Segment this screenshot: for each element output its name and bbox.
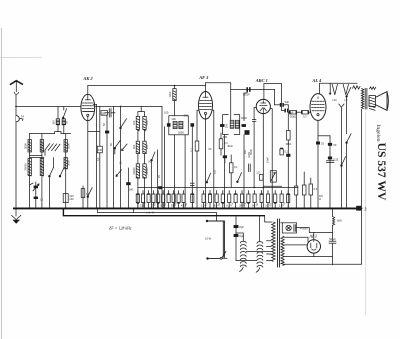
wire osc right column [144, 129, 146, 141]
resistor Ra6 [160, 194, 164, 208]
svg-text:3000: 3000 [66, 160, 70, 166]
capacitor C17 blob [328, 143, 337, 147]
AL4 cathode network bracket [318, 135, 330, 137]
IF1 coil left [173, 121, 177, 128]
transformer secondary winding 2 [281, 259, 284, 266]
resistor Rb6 [234, 193, 237, 202]
svg-text:0,25: 0,25 [333, 157, 339, 161]
wire AF3 left lead [197, 110, 199, 141]
capacitor C7 blob [167, 123, 171, 127]
wire x346.5 down [346, 96, 348, 133]
transformer primary winding [272, 222, 276, 262]
speaker output transformer winding [361, 88, 363, 108]
wire AF3 anode rail [206, 83, 231, 121]
resistor Rc1 [295, 112, 298, 208]
trimmer capacitor C1 [33, 182, 39, 192]
wire x120.5 full [120, 106, 122, 208]
svg-text:3600: 3600 [24, 143, 28, 149]
tube AF3 top stem [203, 83, 208, 98]
label 100 100 [132, 120, 149, 125]
oscillator coil pair Lb middle [136, 141, 146, 153]
wire x99.5 lower [99, 153, 101, 209]
resistor Ra5 [157, 194, 160, 204]
plug V1 L10 [332, 84, 337, 94]
resistor Rb5 [226, 194, 230, 208]
wire x332 mid [332, 225, 334, 241]
tube AK2 cathode [87, 114, 89, 121]
wire cap link [236, 233, 243, 241]
wire osc left column 2 [137, 154, 139, 164]
tube AL4 grids [312, 101, 325, 111]
speaker transformer core [365, 88, 367, 109]
wire winding bottom stub [283, 263, 284, 266]
wire x157.5 [157, 150, 159, 208]
svg-text:+4V: +4V [364, 207, 368, 212]
wire x185.1 drop [184, 135, 186, 209]
band switch S1 [63, 109, 67, 119]
svg-text:0,1: 0,1 [234, 165, 238, 169]
svg-text:15: 15 [40, 198, 43, 202]
trimmer arrow T3 [116, 170, 121, 177]
svg-text:0,1: 0,1 [190, 148, 194, 152]
pickup jack TA [16, 114, 24, 121]
capacitor C21 50uF [329, 241, 336, 264]
wire AZ1 top [313, 233, 315, 240]
svg-text:50: 50 [333, 143, 336, 147]
wire AL4 bottom stem [317, 120, 319, 208]
wire osc right column 2 [144, 154, 146, 164]
tube AK2 envelope [81, 94, 95, 120]
wire IF2 bottom drop [224, 134, 226, 208]
capacitor C18 blob [326, 157, 338, 163]
resistor Rb11 [265, 194, 269, 208]
svg-text:100: 100 [145, 120, 149, 125]
resistor Rb10 [260, 193, 263, 202]
wire transformer top drop [265, 216, 272, 222]
IF2 coil left [230, 120, 234, 128]
svg-text:30000: 30000 [24, 163, 28, 171]
svg-text:ZF = 128 kHz: ZF = 128 kHz [109, 225, 132, 230]
page divider line [365, 112, 367, 315]
switch S11 [87, 188, 92, 198]
wire AK2 bottom stem [87, 121, 89, 209]
resistor R7 on x288 [287, 130, 291, 208]
wire AL4 anode rail [320, 83, 358, 94]
svg-text:10nF: 10nF [266, 157, 270, 163]
resistor R11 [280, 148, 288, 155]
tube AZ1 internals [311, 240, 317, 250]
wire filter left vertical [29, 134, 31, 209]
switch S3 [59, 168, 64, 177]
resistor R3 box [101, 111, 107, 116]
capacitor C11b blob [245, 130, 250, 135]
node rail-coil junction [174, 85, 176, 87]
svg-text:5µF: 5µF [285, 100, 290, 104]
capacitor C5 blob [126, 168, 133, 208]
switch S8 [346, 134, 351, 209]
label 300 200 [132, 144, 149, 149]
power box bottom [284, 208, 362, 264]
svg-text:30nF: 30nF [227, 144, 233, 148]
coil L4 5000 [64, 140, 67, 152]
switch S2 [49, 168, 54, 209]
wire AZ1 bottom loop [314, 253, 333, 257]
wire y89.5 avc [231, 89, 275, 91]
switch S12 [206, 173, 211, 183]
resistor R14 [81, 189, 90, 198]
capacitor C13 5uF [275, 100, 290, 107]
svg-text:15 W: 15 W [205, 237, 212, 241]
wire filter box top rail [30, 132, 71, 134]
transformer secondary winding 1 [281, 236, 284, 259]
capacitor C22 bars [248, 164, 250, 172]
wire selector link y260.5 [236, 260, 257, 262]
resistor Ra9 [177, 194, 180, 204]
svg-text:TA: TA [21, 114, 24, 118]
plug Y [339, 104, 344, 111]
svg-text:1nF: 1nF [243, 149, 247, 154]
transformer core [278, 219, 280, 268]
detector resistor R8 [219, 133, 228, 155]
svg-text:100: 100 [171, 117, 176, 121]
wire coil tops y157.6 [30, 158, 68, 168]
speaker voice coil [369, 96, 375, 111]
resistor R1 box 100/140 [63, 194, 74, 203]
svg-text:50: 50 [109, 143, 113, 146]
selector bottom hooks [240, 267, 260, 272]
tube AK2 top cap [85, 86, 90, 100]
svg-text:0,3: 0,3 [303, 115, 307, 119]
svg-text:L10: L10 [332, 98, 337, 102]
svg-text:20000: 20000 [132, 167, 136, 175]
potentiometer P1 [270, 171, 276, 182]
coil L5 30000 [28, 158, 31, 176]
wire mid horizontal [30, 154, 42, 156]
svg-text:35: 35 [64, 121, 68, 124]
node avc1 [253, 187, 255, 189]
svg-text:100: 100 [52, 120, 56, 125]
svg-text:AF 3: AF 3 [198, 75, 209, 80]
resistor Rb12 [274, 194, 277, 204]
mains plug bottom [206, 257, 220, 259]
ground bus [13, 207, 362, 209]
resistor Ra4 [151, 194, 155, 208]
wire heater line under bus [98, 208, 217, 221]
capacitor C15 blob [286, 154, 290, 157]
wire AF3 bottom stem [205, 119, 207, 208]
wire heater pair bottom [285, 244, 307, 246]
svg-text:0,1: 0,1 [229, 201, 234, 207]
voltage selector column A [240, 241, 246, 267]
transformer primary taps [267, 241, 272, 261]
switch S9 [237, 173, 242, 183]
resistor Rb9 [252, 194, 256, 208]
svg-text:300: 300 [223, 135, 228, 139]
resistor Ra11 [191, 193, 194, 202]
wire x107 [106, 115, 108, 208]
resistor Ra1 [136, 193, 139, 203]
speaker cone [375, 92, 388, 111]
resistor R4 [195, 141, 199, 208]
wire grid line y106 [16, 105, 63, 107]
svg-text:5000: 5000 [249, 149, 253, 155]
wire colB top [258, 216, 260, 241]
wire osc right column 3 [144, 178, 146, 208]
svg-text:25: 25 [321, 142, 324, 146]
wire AK2 screen lead [94, 104, 97, 208]
coil L2 3600 [28, 140, 31, 152]
wire lamp to rectifier [297, 228, 333, 233]
resistor Rc3 [309, 178, 318, 208]
svg-text:DR: DR [98, 148, 102, 152]
wire AVC line y187.5 [138, 187, 298, 189]
svg-text:140: 140 [129, 187, 134, 191]
wire IF2 right drop [243, 135, 245, 209]
svg-text:0,5: 0,5 [213, 170, 217, 174]
svg-text:AK 2: AK 2 [82, 76, 93, 81]
wire ABC1 left lead [254, 108, 256, 120]
wire drop x330 [330, 83, 331, 94]
svg-text:2000: 2000 [241, 116, 247, 120]
capacitor C4 blob [105, 131, 109, 134]
wire x288.3 [287, 105, 289, 131]
wire x341 down [340, 111, 342, 209]
switch S10 mains [220, 251, 227, 259]
IF transformer 1 box [169, 116, 189, 135]
resistor Rb3 [214, 194, 218, 208]
tube ABC1 internals [260, 101, 267, 113]
node bus dots [63, 208, 319, 210]
resistor Rb8 [247, 194, 250, 204]
trimmer arrows [45, 144, 60, 151]
svg-text:1000: 1000 [168, 91, 172, 97]
capacitor C6 blob [158, 186, 162, 189]
wire IF1 left cap drop [164, 127, 166, 209]
wire x274.5 [274, 90, 276, 105]
antenna coil Lb [62, 119, 65, 125]
tube AK2 grids [82, 103, 93, 111]
resistor Ra3 [147, 193, 150, 202]
resistor Rb7 [239, 194, 243, 208]
svg-text:300: 300 [132, 144, 136, 149]
svg-text:0,2: 0,2 [284, 149, 288, 153]
svg-text:200: 200 [145, 144, 149, 149]
ground symbol [12, 209, 21, 224]
svg-text:50: 50 [208, 147, 211, 151]
capacitor C19 5nF [234, 225, 245, 229]
wire x83 [82, 186, 84, 208]
wire ABC1 right lead [270, 109, 272, 209]
svg-text:AL 4: AL 4 [311, 78, 322, 83]
antenna coil La [56, 119, 59, 125]
wire AF3 right lead [212, 110, 214, 208]
wire osc left column 3 [137, 178, 139, 208]
hum coil zigzag [370, 87, 376, 90]
capacitor C8 blob [191, 123, 195, 127]
switch S6 [151, 152, 155, 208]
svg-text:1kW: 1kW [337, 219, 343, 223]
resistor R13 zigzag [333, 209, 335, 225]
resistor Rb1 [201, 194, 205, 208]
wire grid AL4 y112 [288, 111, 289, 113]
resistor Rb4 [221, 194, 224, 204]
voltage selector column B [257, 242, 263, 268]
wire osc tops [138, 112, 145, 117]
svg-text:20000: 20000 [145, 167, 149, 175]
antenna symbol [10, 81, 23, 95]
resistor Rb13 [279, 194, 283, 208]
capacitor C16 blob [223, 155, 227, 163]
mains plug top [206, 220, 225, 258]
wire segment y181 [264, 185, 282, 187]
resistor R5 50k [289, 110, 301, 114]
coil L7 3000 [64, 158, 67, 169]
tube ABC1 envelope [256, 99, 270, 113]
svg-text:ABC 1: ABC 1 [255, 78, 268, 83]
svg-text:100: 100 [164, 111, 169, 115]
wire mains vertical x223.5 [222, 221, 224, 257]
IF2 coil right [235, 120, 239, 128]
resistor Ra10 [181, 194, 185, 208]
capacitor C25 blob [316, 142, 324, 146]
svg-text:8µF: 8µF [239, 225, 244, 229]
svg-text:Ingelen: Ingelen [375, 124, 381, 141]
switch S7 [346, 87, 351, 97]
capacitor C24 bars [190, 183, 194, 185]
pilot lamp box [282, 223, 296, 233]
resistor R6 [301, 110, 310, 114]
page edge line [1, 28, 3, 339]
svg-text:5000: 5000 [66, 143, 70, 149]
wire speaker transformer bottom [361, 109, 363, 208]
page corner line [0, 56, 42, 58]
resistor Rb14 [287, 193, 290, 202]
oscillator coil pair Lc lower [136, 164, 146, 179]
resistor R10 [256, 170, 263, 180]
node antenna junction [15, 106, 17, 108]
wire ABC1 bottom stem [262, 114, 264, 209]
svg-text:50: 50 [102, 123, 106, 126]
wire heater pair top [285, 237, 308, 242]
wire trimmer bus [44, 151, 46, 156]
resistor Ra8 [171, 194, 175, 208]
switch S4 [120, 119, 127, 129]
IF transformer 2 left bracket [223, 115, 229, 135]
wire AK2 g lead [83, 110, 94, 112]
wire caps column x236 [235, 216, 237, 261]
capacitor C10 blob [220, 124, 225, 127]
node speaker bottom [361, 208, 363, 210]
svg-text:0,5: 0,5 [281, 201, 286, 207]
plug V2 L3 [343, 84, 348, 94]
svg-text:300: 300 [184, 113, 189, 117]
bus end terminal [356, 206, 361, 211]
tube AF3 grids [200, 101, 212, 110]
IF transformer 2 right bracket [234, 115, 240, 135]
node j1 [120, 106, 122, 108]
wire osc top stem [140, 106, 142, 111]
wire x162 [161, 106, 163, 208]
svg-text:0,2: 0,2 [203, 201, 208, 207]
capacitor C3 [105, 109, 115, 117]
svg-text:AZ 1: AZ 1 [309, 235, 317, 239]
svg-text:140: 140 [69, 197, 74, 201]
antenna coil right branch [63, 106, 65, 133]
resistor row above bus [136, 112, 318, 208]
svg-text:1/2: 1/2 [256, 170, 260, 174]
capacitor C9 50uF [243, 87, 251, 96]
node avc2 [263, 187, 265, 189]
wire AL4 cathode column [329, 136, 331, 209]
label sprinkle group [96, 111, 286, 207]
switch S13 [341, 157, 346, 167]
svg-text:0,1: 0,1 [96, 157, 100, 161]
wire ABC1 top bracket [264, 84, 282, 105]
wire x174.4 drop [173, 135, 175, 209]
IF1 coil right [179, 121, 183, 128]
wire AK2 y131.5 link [88, 131, 100, 133]
wire filter mid vertical [41, 134, 43, 209]
wire x192.3 drop [191, 127, 193, 209]
wire x113.5 [113, 106, 115, 208]
label 20000 20000 [132, 167, 149, 175]
svg-text:100: 100 [225, 123, 229, 128]
wire x99.5 [99, 106, 101, 146]
svg-text:Ω: Ω [319, 197, 321, 201]
wire selector link y251.6 [246, 251, 271, 253]
resistor Ra2 [140, 194, 145, 208]
capacitor C14 5uF [282, 104, 294, 114]
resistor Ra7 [167, 193, 170, 202]
capacitor C11 blob [242, 124, 247, 127]
resistor R2 box DR [97, 146, 102, 153]
svg-text:2000: 2000 [178, 130, 184, 134]
tube AL4 cathode [317, 97, 319, 116]
wire y106 to AK2 [64, 105, 81, 107]
svg-text:DR: DR [102, 111, 106, 115]
resistor Rc2 [302, 172, 306, 208]
wire IF2 right top [244, 92, 247, 121]
capacitor C2 [30, 183, 39, 208]
tube AZ1 envelope [307, 240, 320, 253]
wire y106 mid [95, 105, 162, 107]
resistor Rb2 [208, 193, 211, 202]
svg-text:3MΩ: 3MΩ [286, 142, 292, 146]
label misc osc [102, 123, 161, 178]
tube AF3 envelope [199, 92, 213, 120]
wire filter right vertical [65, 134, 67, 209]
capacitor C20 5nF [234, 234, 245, 238]
antenna coil left branch [57, 106, 59, 131]
wire antenna down lead [15, 95, 17, 209]
trimmer arrow T2 [122, 144, 127, 151]
resistor R9 [229, 155, 238, 188]
tube AL4 envelope [310, 94, 326, 121]
svg-text:50kΩ: 50kΩ [290, 115, 296, 119]
svg-text:100: 100 [132, 120, 136, 125]
coil L6 20000 [40, 158, 43, 176]
tube AF3 cathode [204, 112, 206, 119]
wire bottom pair upper [284, 256, 314, 258]
svg-text:US 537 WV: US 537 WV [375, 143, 388, 201]
wire row stubs [138, 191, 288, 209]
oscillator coil pair La upper [136, 116, 146, 131]
svg-text:50 µF: 50 µF [329, 237, 336, 241]
coil L3 [40, 140, 43, 152]
wire AK2 anode rail y85.5 [88, 85, 206, 87]
wire secondary lead top [281, 222, 282, 224]
field coil zigzag [353, 86, 360, 89]
